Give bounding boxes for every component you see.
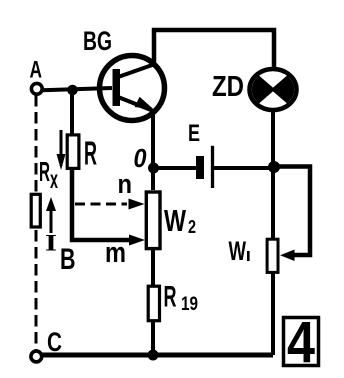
figure number box 4 [284,318,319,366]
current arrow (down) beside R [60,130,63,166]
wire: base wire from node A to transistor [42,88,112,90]
wire: junction down to R [70,89,74,135]
svg-text:0: 0 [134,145,147,173]
wire: R bottom down to corner B, then right (wiper m) [72,168,132,240]
svg-text:4: 4 [287,310,315,375]
battery E wire right [212,166,274,170]
svg-text:R: R [84,135,97,172]
battery E wire left [153,166,197,170]
lamp ZD [250,69,297,110]
svg-text:W: W [229,236,247,266]
resistor R19 [148,286,159,321]
svg-text:I: I [45,231,57,256]
junction dot bottom [148,350,159,361]
arrowhead into W1 [280,250,295,262]
wire: junction to W1 wiper (right loop) [274,167,310,256]
emitter line with arrow [118,97,156,112]
svg-text:ZD: ZD [212,70,244,102]
bottom rail [36,353,273,358]
potentiometer W1 [267,239,278,272]
wire: W1 bottom to bottom rail [271,273,275,355]
node O junction dot [148,163,159,174]
battery negative plate [196,156,204,179]
wire: emitter down to node O [151,112,155,190]
svg-text:n: n [118,169,133,199]
wire: W2 bottom to R19 [151,250,155,286]
svg-text:BG: BG [83,26,112,56]
dashed branch A to Rx [35,95,38,192]
svg-text:C: C [47,327,62,357]
svg-text:x: x [50,166,58,194]
collector line [118,64,155,77]
svg-text:W: W [164,203,187,238]
junction dot at base branch [67,85,78,96]
svg-text:E: E [188,121,200,147]
wire: junction down to W1 [271,168,275,239]
wire: lamp bottom to junction [271,110,275,168]
resistor R [67,135,79,169]
svg-text:A: A [30,57,43,84]
node A terminal circle [31,83,42,94]
current arrow I (up) beside Rx [50,207,53,233]
battery positive plate [211,146,214,188]
transistor BG [100,56,165,121]
wire: R19 bottom to rail [151,322,155,355]
svg-text:m: m [105,237,126,269]
svg-text:2: 2 [188,217,196,237]
svg-text:R: R [164,281,177,314]
transistor body circle [100,56,165,121]
svg-text:B: B [60,243,76,276]
potentiometer W2 [146,192,160,249]
svg-text:19: 19 [181,294,198,315]
base bar [113,69,121,106]
dashed wiper position n [75,203,127,206]
wire: top rail from collector to lamp [154,30,274,68]
node C terminal circle [31,351,42,362]
svg-text:R: R [39,156,50,187]
junction dot right of battery [268,161,280,173]
resistor Rx box [31,194,40,227]
dashed branch Rx to C [35,230,38,350]
arrowhead m into W2 [129,235,145,246]
